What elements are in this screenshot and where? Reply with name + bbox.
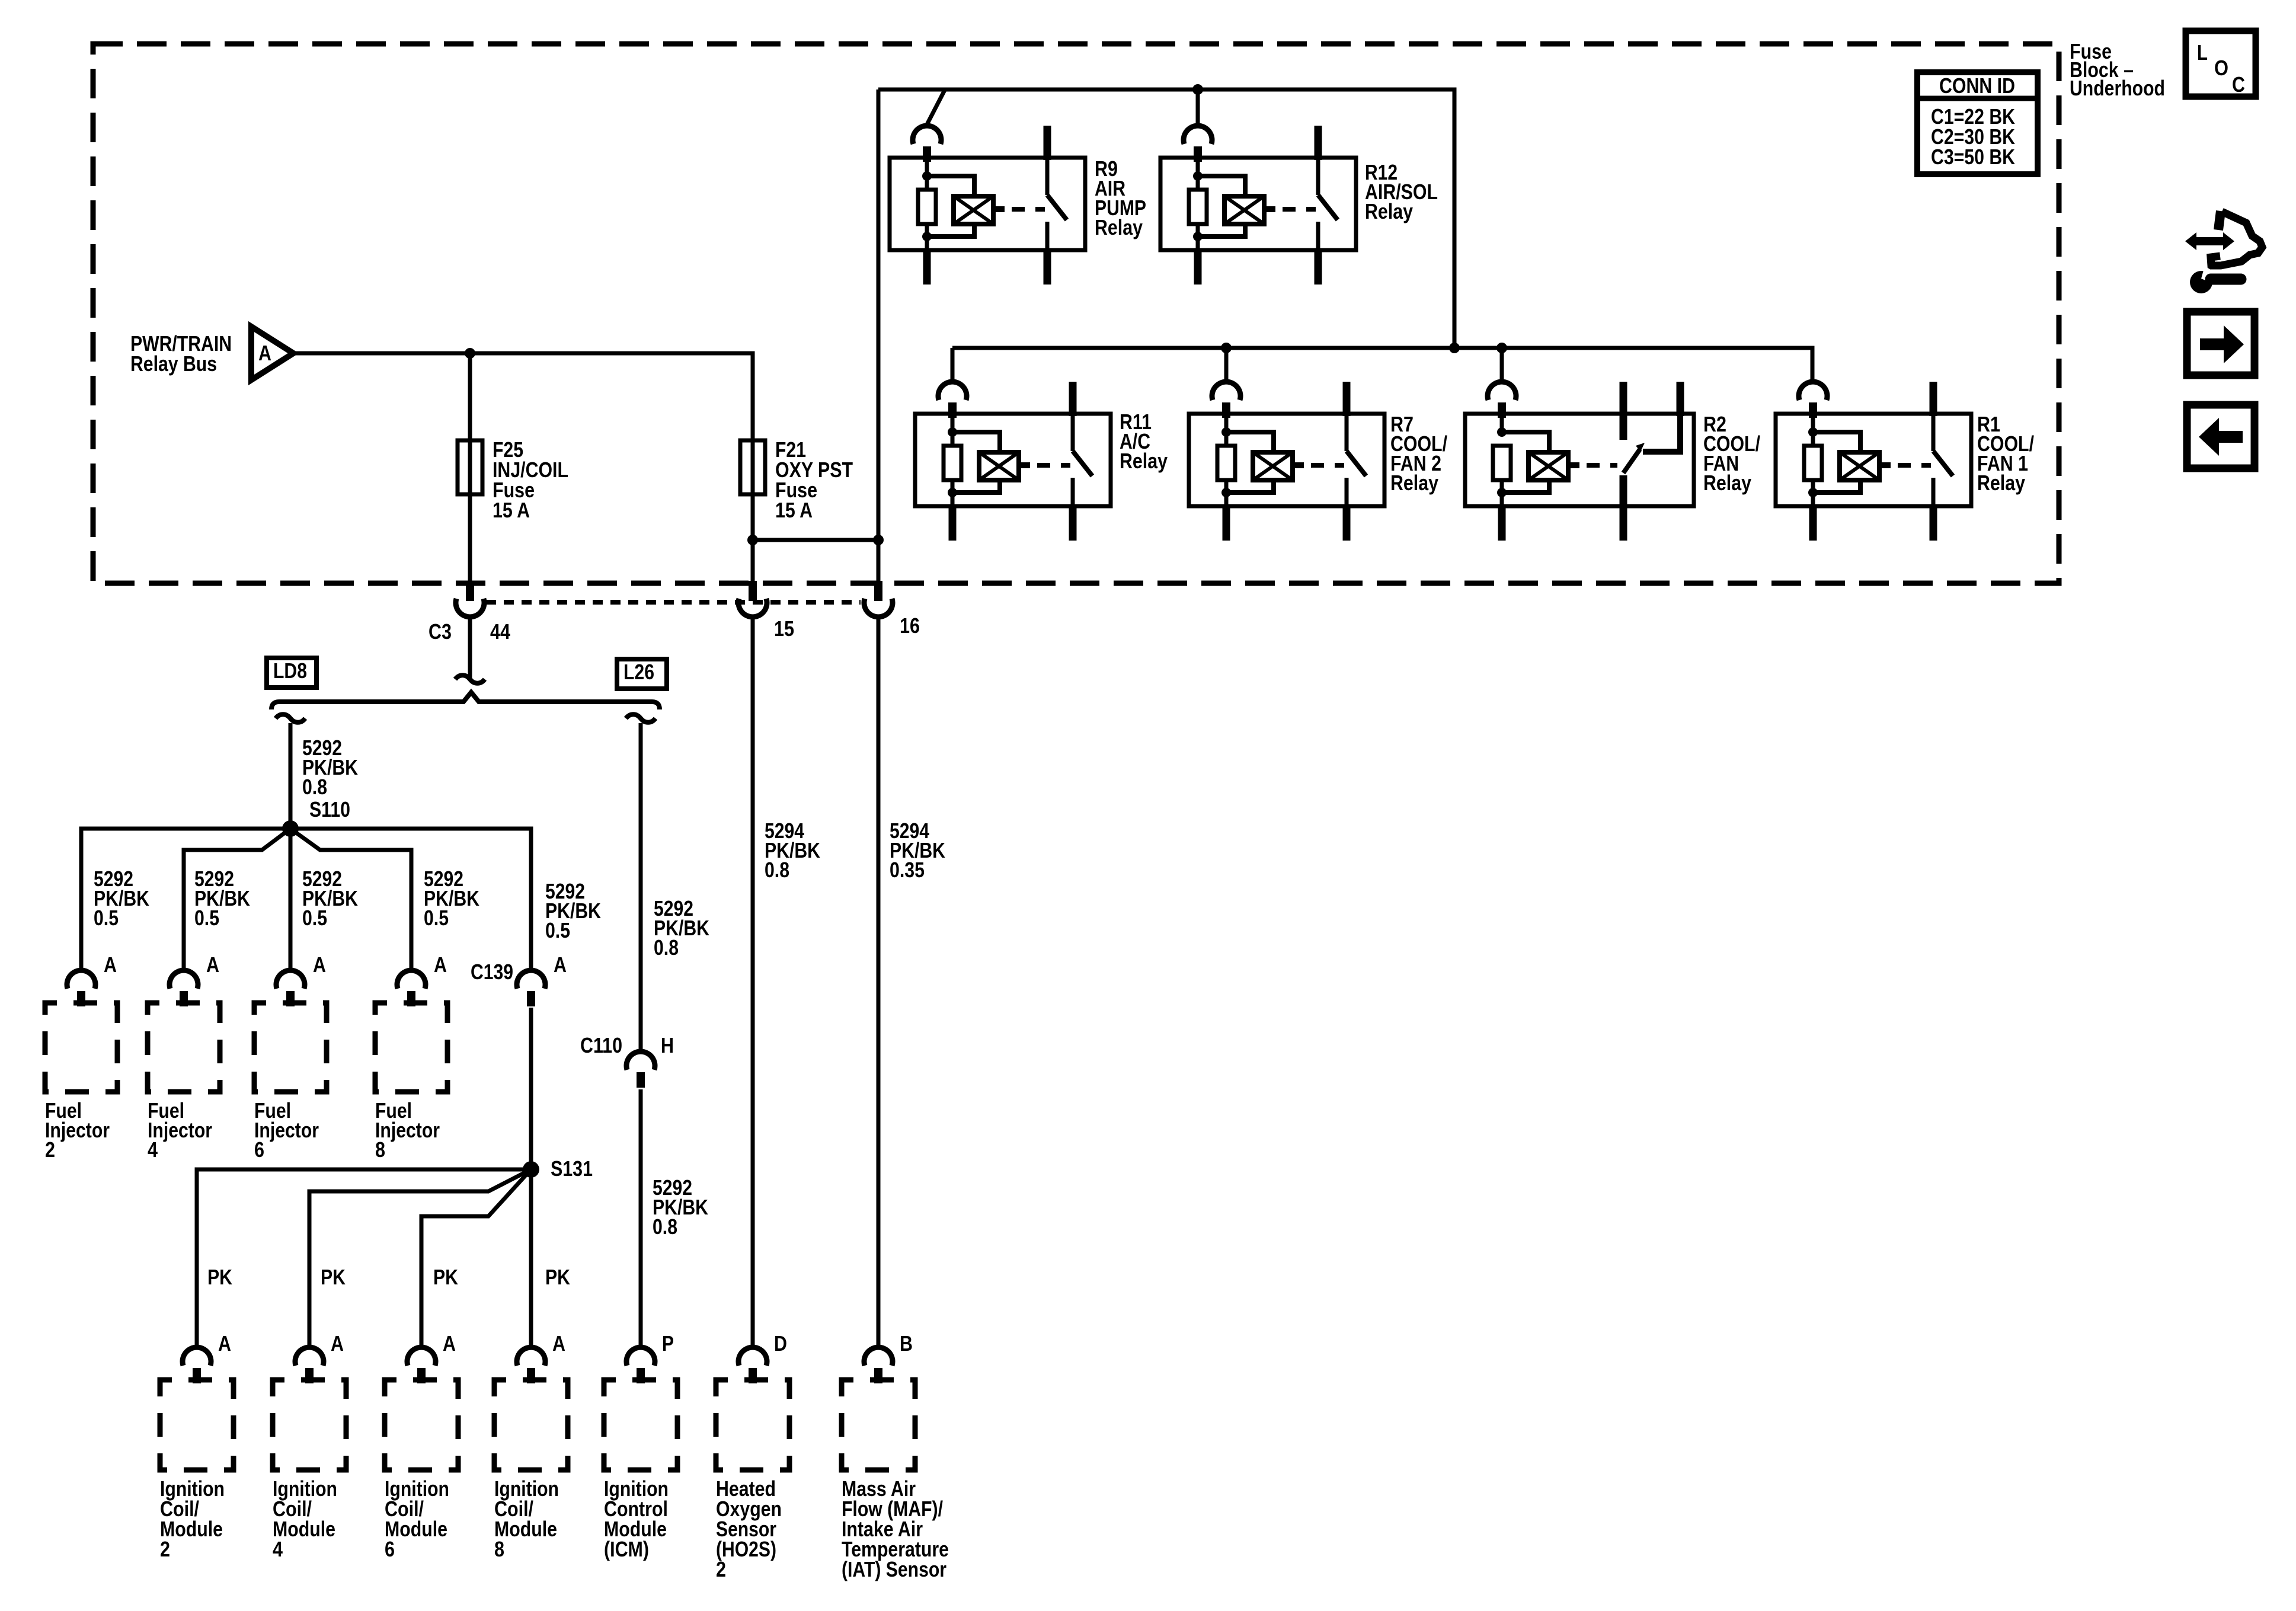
ignition coil/module 4 bbox=[273, 1380, 346, 1561]
wire S131 to ignition coil 2 bbox=[197, 1169, 531, 1347]
wire S110 to injector 6 bbox=[289, 829, 293, 970]
wire second row bus bbox=[952, 348, 1812, 382]
junction dot R2 feed bbox=[1496, 343, 1507, 353]
svg-text:15 A: 15 A bbox=[493, 498, 530, 522]
wire S131 to ignition coil 8 bbox=[529, 1169, 533, 1347]
connector C3 terminal 15 bbox=[738, 581, 794, 641]
pin A ignition coil 8 bbox=[517, 1331, 565, 1383]
wire MAF feed bbox=[877, 615, 881, 1347]
splice S110 bbox=[282, 820, 299, 837]
pin A fuel injector 6 bbox=[276, 952, 326, 1006]
connector C110 bbox=[580, 1033, 674, 1088]
svg-text:16: 16 bbox=[900, 613, 920, 638]
svg-text:0.5: 0.5 bbox=[545, 918, 570, 942]
svg-text:C3=50 BK: C3=50 BK bbox=[1931, 145, 2015, 169]
svg-text:Relay: Relay bbox=[1120, 449, 1168, 473]
svg-text:15 A: 15 A bbox=[775, 498, 813, 522]
svg-text:L26: L26 bbox=[623, 660, 654, 684]
wire F21 output jumper to MAF feed bbox=[753, 538, 878, 542]
pin D HO2S bbox=[738, 1331, 787, 1383]
svg-text:2: 2 bbox=[716, 1557, 726, 1581]
svg-text:S110: S110 bbox=[309, 797, 350, 822]
pin A ignition coil 6 bbox=[407, 1331, 456, 1383]
wire L26 branch down to C110 bbox=[639, 723, 643, 1051]
wire R12 feed bbox=[1196, 89, 1200, 126]
ignition coil/module 8 bbox=[494, 1380, 568, 1561]
pin A ignition coil 2 bbox=[183, 1331, 231, 1383]
fuse F25 bbox=[458, 437, 568, 522]
fuse block dashed border bbox=[93, 44, 2059, 583]
relay R11 bbox=[915, 382, 1168, 541]
svg-text:A: A bbox=[443, 1331, 456, 1356]
svg-text:A: A bbox=[206, 952, 219, 977]
svg-text:Relay: Relay bbox=[1703, 471, 1751, 495]
svg-text:2: 2 bbox=[160, 1537, 170, 1561]
relay R2 (SPDT) bbox=[1465, 382, 1760, 541]
pin A fuel injector 2 bbox=[67, 952, 117, 1006]
junction dot R7 feed bbox=[1221, 343, 1232, 353]
relay R1 bbox=[1776, 382, 2034, 541]
wire R11 feed bbox=[951, 348, 955, 382]
junction dot at F21 output bbox=[747, 535, 758, 545]
svg-text:Relay: Relay bbox=[1365, 199, 1413, 223]
LOC page icon bbox=[2186, 31, 2256, 97]
right arrow nav box bbox=[2187, 312, 2255, 375]
svg-text:0.8: 0.8 bbox=[653, 1214, 677, 1239]
left arrow nav box bbox=[2187, 405, 2255, 468]
svg-text:Relay Bus: Relay Bus bbox=[130, 351, 217, 376]
wire S110 to injector 8 bbox=[290, 829, 411, 970]
fuse F21 bbox=[740, 437, 853, 522]
CONN ID table bbox=[1917, 72, 2038, 174]
heated oxygen sensor HO2S bbox=[716, 1380, 789, 1581]
svg-text:CONN ID: CONN ID bbox=[1939, 73, 2015, 98]
wire R2 feed bbox=[1500, 348, 1504, 382]
svg-text:A: A bbox=[552, 1331, 565, 1356]
svg-text:PK: PK bbox=[545, 1265, 570, 1289]
fuel injector 4 bbox=[148, 1003, 220, 1162]
svg-text:A: A bbox=[313, 952, 326, 977]
svg-text:PK: PK bbox=[433, 1265, 458, 1289]
svg-text:A: A bbox=[331, 1331, 344, 1356]
svg-text:0.8: 0.8 bbox=[765, 858, 789, 882]
svg-text:0.8: 0.8 bbox=[654, 935, 679, 960]
svg-text:15: 15 bbox=[774, 616, 794, 641]
wire top bus to relays bbox=[878, 89, 1454, 348]
svg-text:C110: C110 bbox=[580, 1033, 622, 1057]
wire S110 to C139 bbox=[290, 829, 531, 970]
ignition coil/module 2 bbox=[160, 1380, 234, 1561]
svg-text:6: 6 bbox=[254, 1137, 264, 1162]
service manual hand/wrench icon bbox=[2185, 211, 2262, 293]
wire C110 to ICM bbox=[639, 1089, 643, 1347]
svg-text:C139: C139 bbox=[471, 960, 513, 984]
svg-text:8: 8 bbox=[375, 1137, 385, 1162]
ignition control module ICM bbox=[604, 1380, 677, 1561]
svg-text:6: 6 bbox=[385, 1537, 395, 1561]
svg-text:B: B bbox=[900, 1331, 913, 1356]
relay R12 bbox=[1160, 126, 1438, 285]
svg-text:0.5: 0.5 bbox=[302, 906, 327, 930]
svg-text:8: 8 bbox=[494, 1537, 504, 1561]
pin A fuel injector 8 bbox=[397, 952, 447, 1006]
wire F25 branch bbox=[468, 353, 472, 583]
junction dot R12 feed bbox=[1192, 84, 1203, 95]
svg-text:PK: PK bbox=[321, 1265, 346, 1289]
pin P ICM bbox=[626, 1331, 674, 1383]
wire C139 to S131 bbox=[529, 1008, 533, 1169]
connector C3 terminal 44 bbox=[428, 581, 510, 644]
svg-text:A: A bbox=[554, 952, 567, 977]
svg-text:(ICM): (ICM) bbox=[604, 1537, 649, 1561]
option brace bbox=[271, 692, 660, 709]
squiggle at 44 wire end bbox=[455, 675, 485, 683]
wire S110 to injector 4 bbox=[184, 829, 290, 970]
ignition coil/module 6 bbox=[385, 1380, 458, 1561]
wire 44 down to option brace bbox=[468, 615, 472, 680]
pin B MAF bbox=[864, 1331, 913, 1383]
svg-text:PK: PK bbox=[207, 1265, 232, 1289]
pin A fuel injector 4 bbox=[170, 952, 219, 1006]
svg-text:D: D bbox=[774, 1331, 787, 1356]
mass air flow / IAT sensor bbox=[842, 1380, 949, 1581]
svg-text:A: A bbox=[434, 952, 447, 977]
svg-text:0.5: 0.5 bbox=[424, 906, 449, 930]
svg-text:4: 4 bbox=[273, 1537, 283, 1561]
svg-text:LD8: LD8 bbox=[273, 659, 307, 683]
wire S131 to ignition coil 4 bbox=[309, 1169, 531, 1347]
squiggle L26 branch bbox=[626, 714, 655, 723]
svg-text:Relay: Relay bbox=[1390, 471, 1438, 495]
wire diagonal feed to R9 bbox=[927, 90, 945, 124]
svg-text:S131: S131 bbox=[551, 1156, 593, 1181]
pin A ignition coil 4 bbox=[295, 1331, 344, 1383]
wire left vertical MAF feed bbox=[877, 89, 881, 583]
junction dot F25 branch bbox=[465, 348, 475, 359]
wire S110 to injector 2 bbox=[81, 829, 290, 970]
svg-text:H: H bbox=[661, 1033, 674, 1057]
wire HO2S feed bbox=[751, 615, 755, 1347]
svg-text:A: A bbox=[258, 341, 271, 365]
svg-text:0.35: 0.35 bbox=[890, 858, 925, 882]
svg-text:4: 4 bbox=[148, 1137, 158, 1162]
svg-text:44: 44 bbox=[490, 619, 510, 644]
connector C3 terminal 16 bbox=[864, 581, 920, 638]
svg-text:(IAT) Sensor: (IAT) Sensor bbox=[842, 1557, 946, 1581]
wire main bus from triangle bbox=[293, 353, 753, 583]
node A triangle PWR/TRAIN bbox=[251, 327, 293, 380]
fuel injector 6 bbox=[254, 1003, 327, 1162]
svg-text:0.5: 0.5 bbox=[194, 906, 219, 930]
svg-text:L: L bbox=[2197, 40, 2208, 65]
svg-text:Underhood: Underhood bbox=[2070, 76, 2165, 100]
L26 option box bbox=[617, 659, 667, 689]
relay R7 bbox=[1189, 382, 1447, 541]
svg-text:0.5: 0.5 bbox=[94, 906, 119, 930]
svg-text:2: 2 bbox=[45, 1137, 55, 1162]
junction dot at MAF feed bbox=[873, 535, 884, 545]
wire S131 to ignition coil 6 bbox=[421, 1169, 531, 1347]
svg-text:A: A bbox=[218, 1331, 231, 1356]
LD8 option box bbox=[267, 658, 316, 688]
svg-text:C3: C3 bbox=[428, 619, 452, 644]
junction dot top bus drop bbox=[1449, 343, 1460, 353]
svg-text:Relay: Relay bbox=[1095, 215, 1143, 239]
svg-text:A: A bbox=[104, 952, 117, 977]
relay R9 bbox=[890, 126, 1146, 285]
squiggle LD8 branch bbox=[276, 714, 305, 723]
fuel injector 2 bbox=[45, 1003, 117, 1162]
svg-text:C: C bbox=[2232, 72, 2245, 97]
svg-text:0.8: 0.8 bbox=[302, 775, 327, 799]
wire LD8 branch down to S110 bbox=[289, 723, 293, 829]
C3 connector dashed line bbox=[486, 600, 861, 605]
wire R7 feed bbox=[1224, 348, 1229, 382]
svg-text:P: P bbox=[662, 1331, 674, 1356]
svg-text:O: O bbox=[2214, 56, 2228, 80]
connector C139 bbox=[471, 952, 567, 1006]
svg-text:Relay: Relay bbox=[1977, 471, 2025, 495]
splice S131 bbox=[523, 1161, 539, 1178]
fuel injector 8 bbox=[375, 1003, 447, 1162]
